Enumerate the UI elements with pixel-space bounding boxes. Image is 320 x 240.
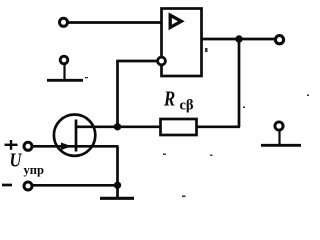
transistor channel bar	[75, 120, 78, 152]
wire feedback vertical right	[238, 39, 241, 127]
wire output	[201, 38, 275, 41]
source wire horizontal	[76, 145, 119, 148]
wire feedback left horizontal	[75, 125, 161, 128]
op-amp U1	[162, 9, 202, 77]
gate wire from plus terminal	[32, 145, 77, 148]
wire feedback right horizontal	[196, 125, 240, 128]
wire to inverting input horizontal	[116, 60, 158, 63]
wire negative bottom	[32, 184, 118, 187]
resistor Rsv body	[161, 119, 197, 135]
svg-text:cβ: cβ	[180, 98, 194, 114]
ground right	[261, 122, 301, 145]
wire to inverting input vertical	[116, 61, 119, 128]
scan specks	[85, 48, 309, 197]
wire input	[66, 21, 162, 24]
terminal plus	[24, 142, 32, 150]
transistor VT1 body	[54, 115, 95, 156]
svg-text:R: R	[163, 88, 175, 111]
svg-text:упр: упр	[24, 163, 44, 177]
wire source down vertical	[116, 146, 119, 197]
junction output node	[235, 35, 242, 42]
terminal output	[275, 36, 283, 44]
label minus sign	[2, 184, 12, 187]
ground bottom bar	[100, 197, 134, 200]
inverting input circle	[158, 57, 166, 65]
svg-text:U: U	[10, 149, 23, 172]
junction bottom node	[114, 182, 121, 189]
ground G1	[47, 56, 83, 80]
op-amp triangle	[170, 15, 181, 27]
terminal input	[60, 18, 68, 26]
label plus sign	[5, 140, 18, 150]
junction feedback node	[114, 123, 121, 130]
gate arrow	[61, 143, 72, 151]
terminal minus	[24, 182, 32, 190]
